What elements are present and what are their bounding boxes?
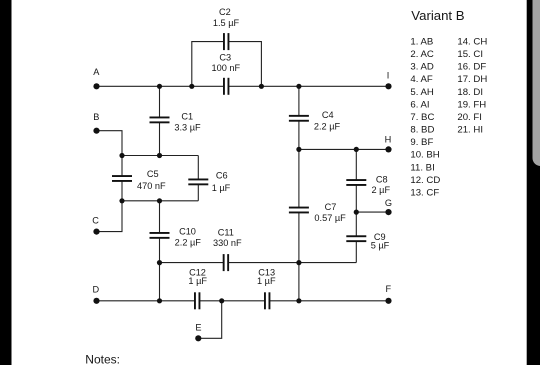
junction	[296, 147, 301, 152]
junction	[157, 260, 162, 265]
wire A-I right of C3	[229, 85, 389, 87]
label C5 470 nF	[137, 169, 166, 191]
svg-text:470 nF: 470 nF	[137, 181, 166, 191]
capacitor C6	[188, 179, 208, 186]
wire C4 bottom lead	[298, 121, 300, 150]
node H	[385, 134, 392, 152]
junction	[296, 84, 301, 89]
wire node B to net	[97, 131, 123, 156]
junction	[157, 298, 162, 303]
wire upper C5/C6 rail	[122, 155, 198, 157]
label C11 330 nF	[213, 228, 242, 248]
capacitor C3	[223, 78, 229, 95]
svg-text:14. CH: 14. CH	[457, 37, 487, 48]
svg-text:20. FI: 20. FI	[457, 112, 482, 123]
wire C1 bottom lead	[159, 122, 161, 155]
junction	[354, 147, 359, 152]
svg-text:A: A	[93, 67, 100, 77]
capacitor C1	[150, 117, 170, 124]
svg-text:G: G	[385, 198, 392, 208]
svg-text:1 µF: 1 µF	[212, 183, 231, 193]
wire C6 bottom lead	[197, 184, 199, 200]
capacitor C2	[223, 33, 229, 50]
title Variant B	[411, 8, 464, 23]
svg-text:C4: C4	[322, 110, 334, 120]
wire node C to net	[97, 201, 123, 232]
node A	[93, 67, 100, 89]
junction	[119, 153, 124, 158]
svg-text:8. BD: 8. BD	[410, 125, 434, 136]
junction	[157, 198, 162, 203]
junction	[189, 84, 194, 89]
svg-text:C11: C11	[218, 228, 234, 238]
label C8 2 µF	[372, 174, 391, 195]
junction	[296, 298, 301, 303]
capacitor C4	[289, 115, 309, 122]
capacitor C12	[194, 292, 200, 309]
label C1 3.3 µF	[174, 112, 201, 133]
junction	[119, 198, 124, 203]
svg-text:15. CI: 15. CI	[457, 49, 483, 60]
wire C7 top lead	[298, 149, 300, 207]
svg-text:11. BI: 11. BI	[410, 162, 434, 173]
wire C9 bottom lead	[355, 241, 357, 262]
label C9 5 µF	[371, 232, 390, 251]
wire C10 top lead	[159, 201, 161, 233]
svg-text:3.3 µF: 3.3 µF	[174, 123, 201, 133]
svg-text:2. AC: 2. AC	[410, 49, 434, 60]
svg-text:H: H	[385, 134, 392, 144]
svg-text:19. FH: 19. FH	[457, 99, 486, 110]
svg-text:5. AH: 5. AH	[410, 87, 434, 98]
node E	[195, 323, 201, 342]
label C13 1 µF	[257, 268, 276, 286]
wire mid rail to C9 foot	[299, 262, 356, 264]
svg-text:C6: C6	[216, 171, 228, 181]
svg-text:F: F	[385, 284, 391, 294]
svg-text:2.2 µF: 2.2 µF	[314, 121, 341, 131]
wire C8 bottom lead	[355, 185, 357, 212]
svg-text:E: E	[195, 323, 201, 333]
wire C8 top lead	[355, 149, 357, 180]
svg-text:C2: C2	[219, 7, 231, 17]
junction	[354, 210, 359, 215]
svg-text:5 µF: 5 µF	[371, 241, 390, 251]
wire C4 top lead	[298, 86, 300, 116]
wire node E branch	[198, 301, 221, 339]
svg-text:C1: C1	[181, 112, 193, 122]
svg-text:0.57 µF: 0.57 µF	[314, 213, 346, 223]
wire G stub	[356, 211, 388, 213]
node D	[92, 285, 99, 304]
svg-text:1. AB: 1. AB	[410, 37, 433, 48]
variant pair list	[410, 37, 487, 199]
left letterbox bar	[0, 0, 12, 365]
wire D rail between C12 C13	[200, 300, 265, 302]
svg-text:4. AF: 4. AF	[410, 74, 433, 85]
right letterbox bar	[527, 0, 540, 365]
svg-text:I: I	[387, 70, 390, 80]
svg-text:7. BC: 7. BC	[410, 112, 434, 123]
capacitor C11	[223, 254, 229, 271]
svg-text:13. CF: 13. CF	[410, 187, 439, 198]
wire C2 branch left	[192, 42, 224, 87]
node B	[93, 112, 99, 134]
capacitor C9	[346, 235, 366, 242]
wire C6 top lead	[197, 156, 199, 180]
svg-text:10. BH: 10. BH	[410, 150, 439, 161]
svg-text:C5: C5	[147, 169, 159, 179]
junction	[296, 260, 301, 265]
svg-text:1 µF: 1 µF	[188, 276, 207, 286]
wire mid column to D rail	[298, 263, 300, 301]
wire C1 top lead	[159, 86, 161, 117]
junction	[157, 84, 162, 89]
wire C9 top lead	[355, 212, 357, 236]
Notes caption	[85, 352, 120, 365]
node G	[385, 198, 392, 215]
svg-text:9. BF: 9. BF	[410, 137, 433, 148]
svg-text:C8: C8	[376, 174, 388, 184]
svg-text:18. DI: 18. DI	[457, 87, 483, 98]
svg-text:330 nF: 330 nF	[213, 238, 242, 248]
wire mid rail left of C11	[160, 262, 224, 264]
label C2 1.5 µF	[213, 7, 240, 28]
wire C10 bottom lead	[159, 238, 161, 263]
svg-text:C7: C7	[325, 202, 337, 212]
wire A-I left of C3	[97, 85, 224, 87]
capacitor C10	[150, 232, 170, 239]
scrollbar thumb	[533, 0, 540, 166]
wire C5 bottom lead	[121, 181, 123, 201]
junction	[259, 84, 264, 89]
svg-text:3. AD: 3. AD	[410, 62, 434, 73]
svg-text:21. HI: 21. HI	[457, 125, 483, 136]
label C12 1 µF	[188, 268, 207, 286]
junction	[219, 298, 224, 303]
wire D rail right of C13	[270, 300, 389, 302]
wire C5 top lead	[121, 156, 123, 177]
svg-text:2.2 µF: 2.2 µF	[175, 238, 202, 248]
svg-text:Variant B: Variant B	[411, 8, 464, 23]
wire D rail left of C12	[97, 300, 195, 302]
label C3 100 nF	[211, 53, 240, 73]
svg-text:D: D	[92, 285, 99, 295]
svg-text:16. DF: 16. DF	[457, 62, 486, 73]
label C7 0.57 µF	[314, 202, 346, 223]
node I	[385, 70, 391, 89]
capacitor C5	[112, 175, 132, 182]
label C4 2.2 µF	[314, 110, 341, 131]
junction	[157, 153, 162, 158]
svg-text:2 µF: 2 µF	[372, 185, 391, 195]
capacitor C7	[289, 207, 309, 214]
svg-text:17. DH: 17. DH	[457, 74, 487, 85]
svg-text:B: B	[93, 112, 99, 122]
svg-text:6. AI: 6. AI	[410, 99, 429, 110]
label C10 2.2 µF	[175, 227, 202, 248]
svg-text:C: C	[92, 216, 99, 226]
capacitor C8	[346, 179, 366, 186]
svg-text:C3: C3	[219, 53, 231, 63]
svg-text:Notes:: Notes:	[85, 352, 120, 365]
node F	[385, 284, 391, 304]
svg-text:1.5 µF: 1.5 µF	[213, 18, 240, 28]
svg-text:100 nF: 100 nF	[211, 63, 240, 73]
wire mid rail right of C11	[228, 262, 299, 264]
label C6 1 µF	[212, 171, 231, 193]
wire lower C5/C6 rail	[122, 200, 198, 202]
node C	[92, 216, 99, 235]
wire H rail	[299, 148, 389, 150]
svg-text:C10: C10	[179, 227, 196, 237]
capacitor C13	[264, 292, 270, 309]
wire C2 branch right	[229, 42, 262, 87]
svg-text:1 µF: 1 µF	[257, 276, 276, 286]
svg-text:12. CD: 12. CD	[410, 175, 440, 186]
wire left column to D rail	[159, 263, 161, 301]
wire C7 bottom lead	[298, 213, 300, 263]
